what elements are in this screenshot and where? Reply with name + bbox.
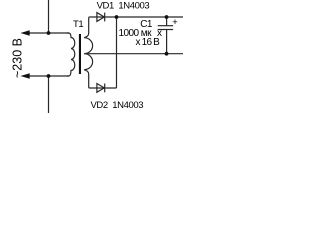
svg-text:х 16 В: х 16 В bbox=[136, 37, 161, 48]
wire AC line bottom vertical bbox=[48, 76, 50, 113]
diode VD1 triangle bbox=[97, 13, 104, 22]
junction dot bottom-left bbox=[47, 74, 51, 78]
wire top rail (+) bbox=[89, 16, 183, 19]
diode VD1 cathode bar bbox=[104, 13, 106, 22]
diode VD2 cathode bar bbox=[104, 84, 106, 93]
svg-text:VD2 1N4003: VD2 1N4003 bbox=[91, 100, 144, 111]
svg-text:VD1 1N4003: VD1 1N4003 bbox=[97, 0, 150, 11]
svg-text:~230 В: ~230 В bbox=[11, 38, 25, 78]
wire AC line top vertical bbox=[48, 0, 50, 33]
transformer core bbox=[79, 34, 81, 74]
diode VD2 triangle bbox=[97, 84, 104, 93]
wire bottom rail through VD2 bbox=[89, 87, 116, 88]
capacitor C1 bottom lead bbox=[166, 30, 168, 54]
transformer T1 primary winding bbox=[67, 33, 75, 76]
junction dot C1 top bbox=[165, 15, 169, 19]
wire bottom-left horizontal bbox=[29, 75, 70, 77]
capacitor C1 top plate bbox=[158, 25, 173, 27]
wire middle rail (center tap to output) bbox=[84, 53, 183, 55]
capacitor C1 bottom plate bbox=[158, 29, 173, 31]
junction dot diode outputs bbox=[115, 15, 119, 19]
junction dot C1 bottom bbox=[165, 52, 169, 56]
wire VD2 cathode riser to + rail bbox=[116, 17, 117, 88]
arrowhead AC top bbox=[21, 30, 30, 36]
arrowhead AC bottom bbox=[21, 73, 30, 79]
junction dot top-left bbox=[47, 31, 51, 35]
wire top-left horizontal bbox=[29, 32, 70, 34]
transformer T1 secondary winding with leads bbox=[84, 18, 92, 87]
svg-text:T1: T1 bbox=[73, 19, 83, 30]
svg-text:+: + bbox=[172, 17, 178, 28]
capacitor C1 top lead bbox=[166, 17, 168, 26]
